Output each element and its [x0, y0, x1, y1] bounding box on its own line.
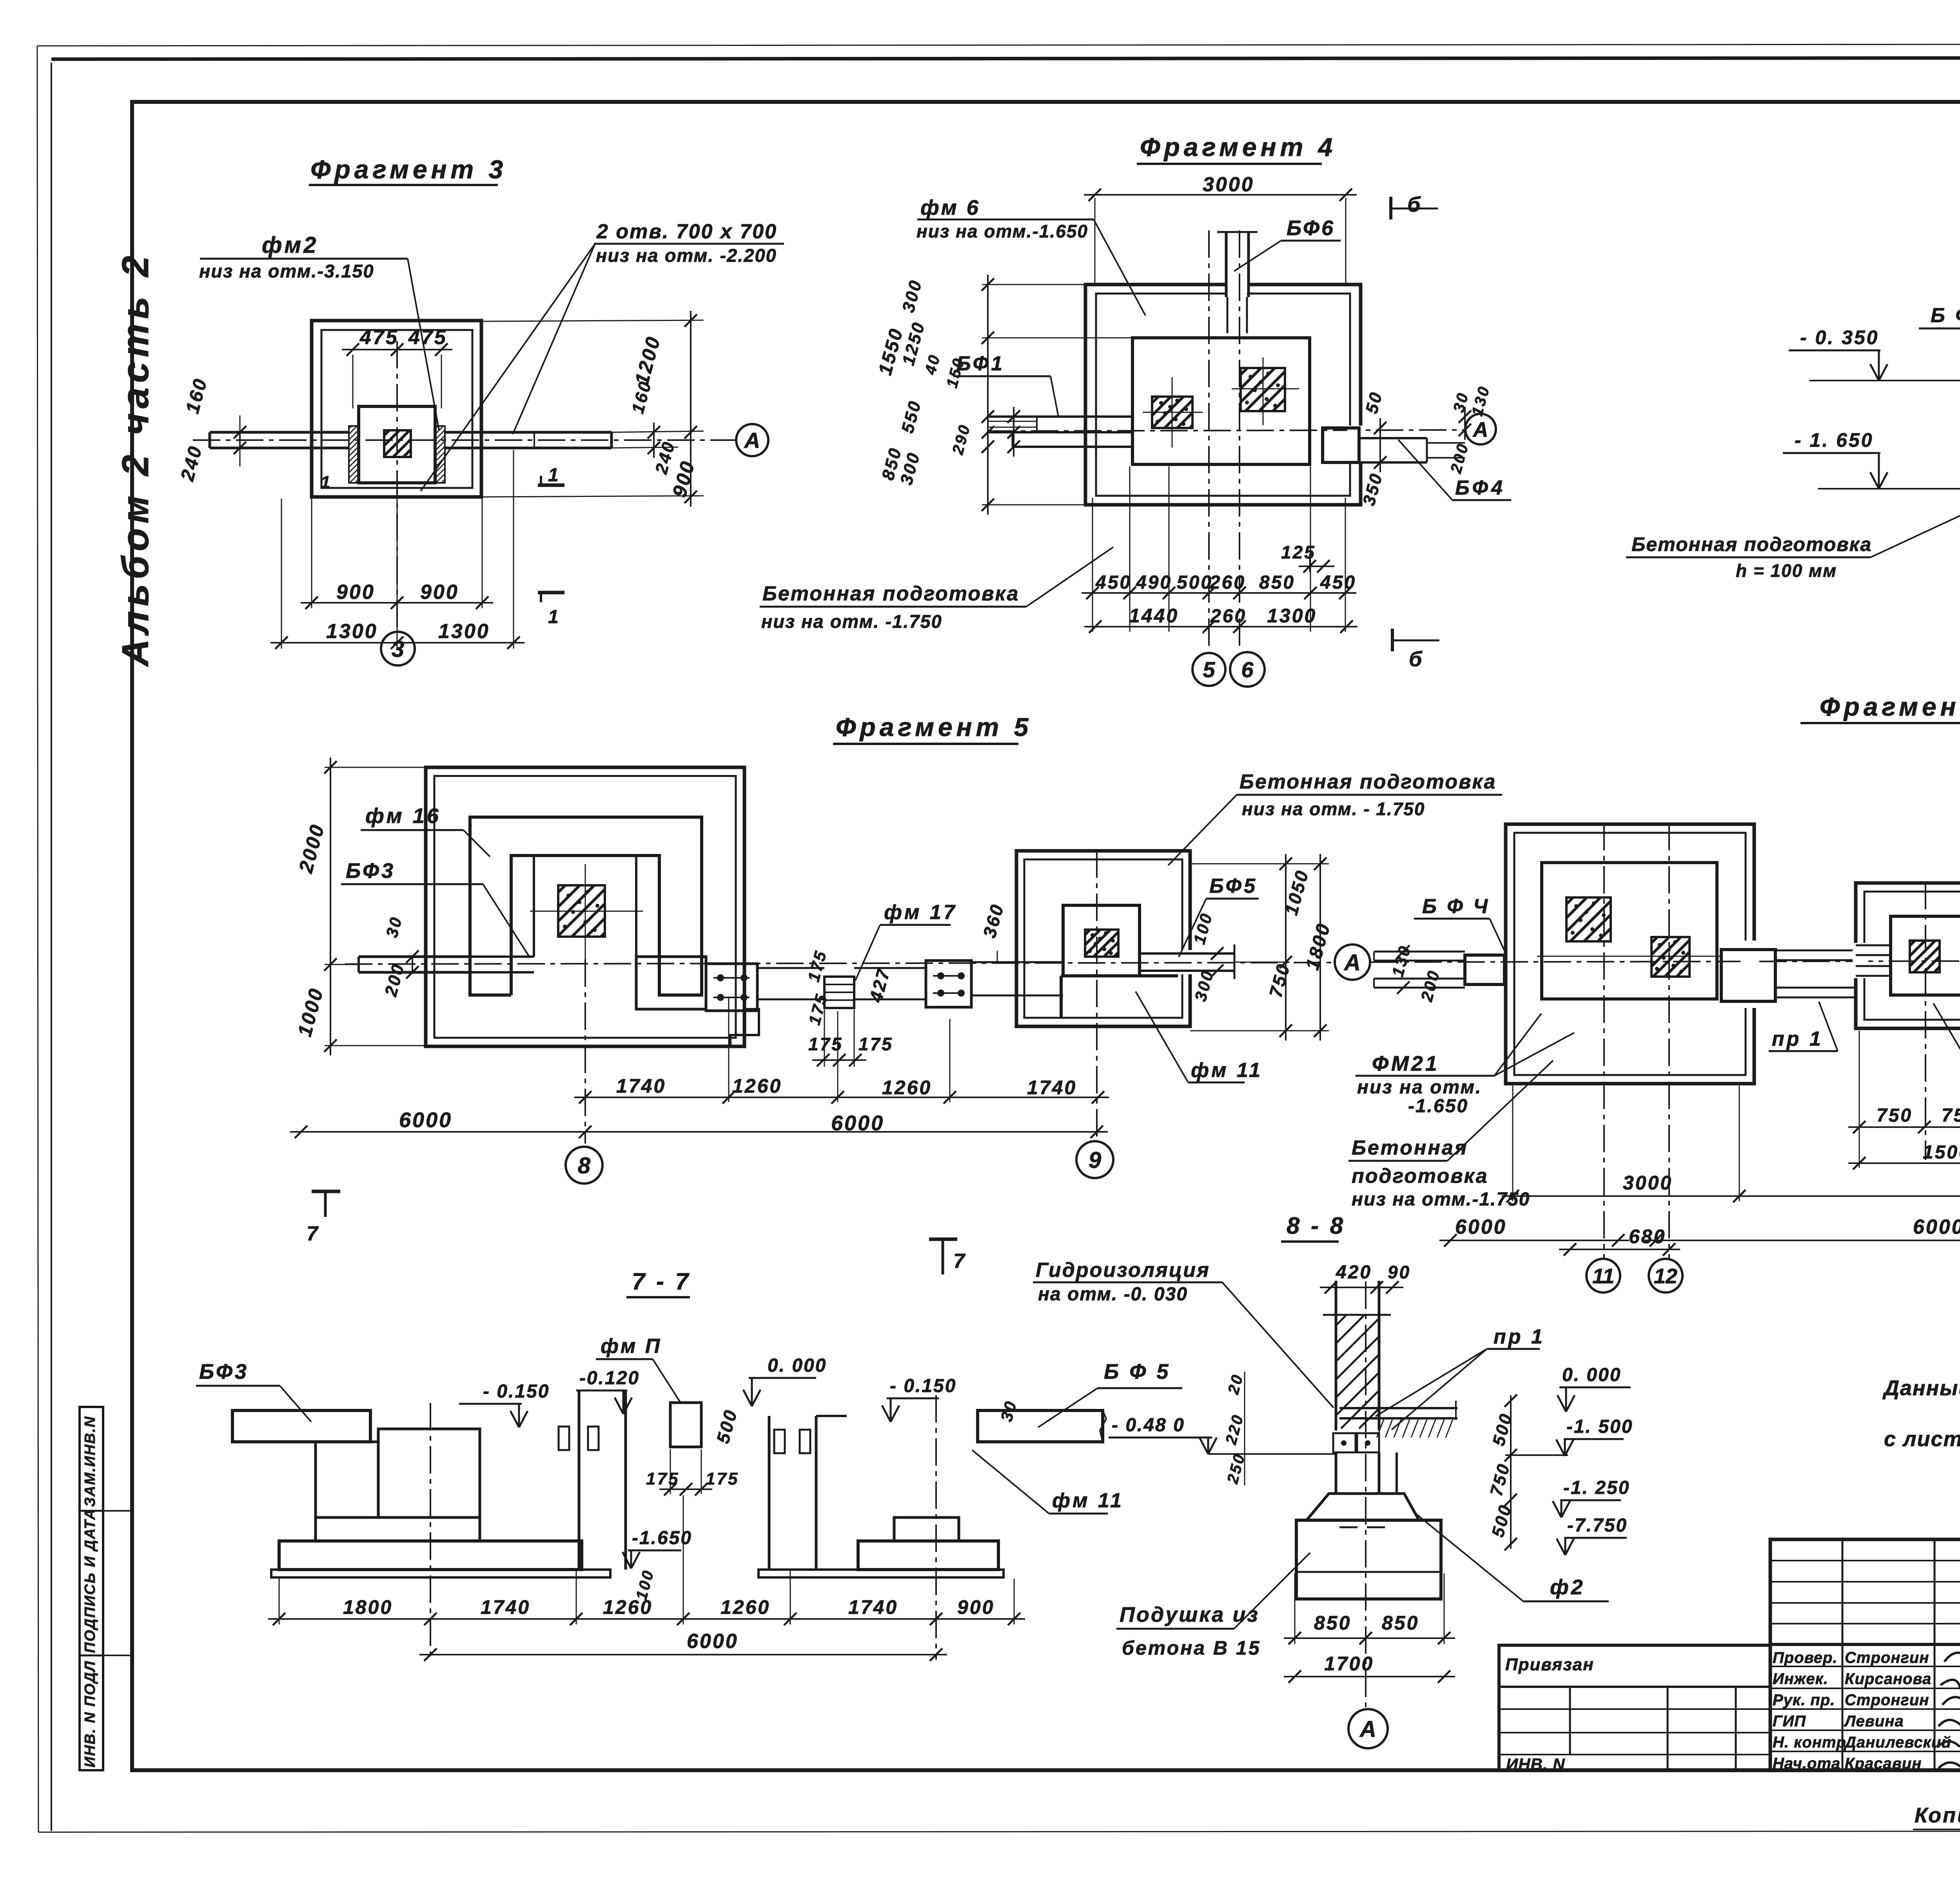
section 8-8 elevation -0.480: [1109, 1415, 1335, 1454]
svg-text:Стронгин: Стронгин: [1845, 1649, 1929, 1666]
svg-text:с листом КЖ4.: с листом КЖ4.: [1884, 1427, 1960, 1451]
svg-text:1500: 1500: [1923, 1142, 1960, 1163]
svg-text:8: 8: [578, 1153, 591, 1178]
svg-text:2 отв. 700 х 700: 2 отв. 700 х 700: [596, 220, 777, 243]
fragment 5 axis 8 centerline: [584, 959, 586, 1144]
svg-text:750: 750: [1877, 1105, 1913, 1126]
fragment 6 dim 6000 right: [1645, 1216, 1960, 1247]
svg-text:1740: 1740: [616, 1075, 666, 1097]
svg-text:Бетонная: Бетонная: [1352, 1137, 1468, 1159]
svg-text:БФ5: БФ5: [1209, 875, 1258, 897]
svg-text:-1. 500: -1. 500: [1566, 1416, 1633, 1437]
svg-text:6000: 6000: [1455, 1216, 1507, 1238]
svg-text:175: 175: [706, 1469, 739, 1488]
svg-text:1: 1: [548, 465, 560, 486]
svg-text:6000: 6000: [399, 1108, 452, 1132]
svg-text:6000: 6000: [1913, 1216, 1960, 1238]
svg-text:900: 900: [336, 581, 375, 604]
section 7-7 footing FM16: [279, 1541, 582, 1570]
section 7-7 elevation -0.150 left: [459, 1381, 550, 1427]
svg-text:БФ1: БФ1: [956, 352, 1005, 375]
fragment 6 dim 6000 left: [1439, 1216, 1629, 1247]
section 7-7 BF3 slab: [232, 1410, 370, 1442]
svg-text:1740: 1740: [848, 1596, 898, 1618]
svg-text:А: А: [1472, 418, 1488, 441]
section 8-8 vertical dim chain: [1486, 1394, 1517, 1550]
svg-text:h = 100 мм: h = 100 мм: [1736, 560, 1837, 581]
fragment 4 label FM6: [916, 196, 1145, 315]
fragment 6 label F2 block: [1933, 1003, 1960, 1100]
svg-text:А: А: [1359, 1717, 1376, 1742]
svg-text:750: 750: [1942, 1105, 1960, 1126]
axis circle 6: [1230, 652, 1265, 687]
fragment 3 title: [309, 155, 507, 185]
fragment 4 hatched square 2: [1241, 368, 1285, 411]
section 7-7 dim 6000: [419, 1630, 947, 1661]
svg-text:ИНВ. N ПОДЛ: ИНВ. N ПОДЛ: [82, 1661, 98, 1767]
fragment 5 main horizontal centerline: [345, 963, 1332, 964]
svg-text:3: 3: [392, 636, 404, 662]
axis circle 5: [1192, 653, 1225, 686]
section 8-8 dim 850 850: [1284, 1574, 1455, 1644]
left margin strip box: [80, 1407, 132, 1770]
inner left vertical line: [51, 63, 52, 1831]
svg-text:3000: 3000: [1623, 1172, 1673, 1194]
fragment 6 dim 1500: [1848, 1142, 1960, 1169]
svg-text:450: 450: [1320, 572, 1356, 593]
section 8-8 title: [1281, 1213, 1345, 1242]
fragment 3 bottom dims 900+900: [301, 484, 493, 649]
fragment 5 axis 9 centerline: [1096, 850, 1098, 1138]
svg-text:Нач.ота: Нач.ота: [1773, 1755, 1840, 1772]
section 6-6 elevation -0.350: [1789, 326, 1960, 381]
fragment 4 label BF6 with leader: [1234, 216, 1341, 271]
axis circle 9: [1076, 1141, 1113, 1178]
svg-text:1: 1: [321, 473, 332, 492]
svg-text:420: 420: [1336, 1262, 1372, 1283]
fragment 5 laminated stub FM17: [824, 977, 854, 1008]
section 7-7 FM17 pedestal block: [670, 1403, 701, 1447]
fragment 3 footing FM2 square: [359, 406, 435, 483]
svg-text:фм 17: фм 17: [884, 901, 957, 924]
fragment 5 rotated dim 360: [979, 901, 1007, 963]
svg-text:низ на отм. - 1.750: низ на отм. - 1.750: [1242, 799, 1425, 819]
fragment 6 FM21 centerline horizontal: [1537, 956, 1721, 957]
axis circle A fragment 6 left: [1335, 944, 1370, 980]
fragment 3 beam right arm: [445, 432, 612, 448]
svg-text:Б Ф 5: Б Ф 5: [1104, 1360, 1171, 1383]
fragment 3 label FM2 with leader: [199, 232, 439, 430]
svg-text:850: 850: [1259, 572, 1295, 593]
fragment 5 connector plate 2 with bolts: [926, 961, 971, 1007]
svg-text:подготовка: подготовка: [1352, 1165, 1488, 1187]
title block upper grid: [1770, 1539, 1960, 1770]
svg-text:6000: 6000: [687, 1630, 739, 1653]
fragment 4 centerline axis 6: [1239, 230, 1240, 651]
section 8-8 label waterproofing: [1033, 1259, 1334, 1408]
svg-text:фм2: фм2: [262, 232, 318, 258]
svg-text:Б Ф Ч: Б Ф Ч: [1931, 304, 1960, 327]
svg-text:Стронгин: Стронгин: [1845, 1691, 1929, 1709]
fragment 6 beam PR1 segment 1: [1775, 950, 1856, 997]
section 8-8 label cushion concrete: [1116, 1553, 1310, 1659]
svg-text:1440: 1440: [1129, 605, 1179, 627]
fragment 5 beam BF3: [359, 957, 534, 972]
fragment 4 title: [1137, 132, 1336, 164]
svg-text:9: 9: [1089, 1148, 1101, 1173]
section mark 7 right: [929, 1239, 966, 1274]
section 7-7 title: [626, 1268, 691, 1297]
section mark 7 left: [307, 1191, 340, 1245]
axis circle 3: [381, 632, 415, 665]
fragment 5 beam rotated dims 30 200: [381, 914, 419, 999]
fragment 6 plan FM21 outer pad: [1506, 824, 1754, 1084]
fragment 6 label FM21 block: [1356, 1013, 1574, 1117]
fragment 6 plan FM21 footing: [1542, 863, 1717, 999]
svg-text:-1. 250: -1. 250: [1563, 1477, 1630, 1498]
fragment 5 square centerlines: [530, 864, 643, 959]
svg-text:пр 1: пр 1: [1494, 1325, 1545, 1348]
fragment 5 label BF5 with leader: [1179, 875, 1259, 957]
fragment 5 dim 6000 row: [290, 1108, 1108, 1138]
fragment 4 square centerlines: [1143, 357, 1299, 448]
fragment 5 right dim stack: [1190, 854, 1334, 1041]
fragment 6 label BF4 with leader: [1414, 895, 1505, 952]
svg-text:фм 11: фм 11: [1052, 1489, 1124, 1512]
svg-text:1260: 1260: [720, 1596, 770, 1618]
fragment 3 left rotated dims 160 240: [177, 375, 332, 492]
svg-text:-0.120: -0.120: [579, 1368, 640, 1389]
fragment 5 footing FM11: [1061, 905, 1178, 1018]
fragment 3 column hatched square: [384, 430, 411, 457]
svg-text:0. 000: 0. 000: [1562, 1365, 1621, 1385]
fragment 4 bottom dim row 1440 260 1300: [1084, 605, 1357, 633]
svg-text:260: 260: [1210, 606, 1247, 627]
fragment 4 label concrete pad with leader: [760, 547, 1113, 632]
svg-text:Данилевский: Данилевский: [1844, 1734, 1951, 1751]
svg-text:1260: 1260: [882, 1077, 932, 1099]
section 8-8 elevation 0.000: [1557, 1365, 1631, 1412]
section 8-8 floor slab: [1339, 1401, 1457, 1420]
fragment 6 beam rotated dims 130 200: [1388, 943, 1443, 1004]
svg-text:Данный лист рассматривать: Данный лист рассматривать вместе: [1882, 1376, 1960, 1400]
fragment 5 bottom dim row 1740 1260 1260 1740: [574, 997, 1109, 1104]
fragment 5 pad step bottom right: [730, 1009, 759, 1046]
svg-text:11: 11: [1592, 1264, 1614, 1288]
section 6-6 elevation -1.650: [1783, 429, 1960, 489]
fragment 4 outer pad double square: [1085, 285, 1361, 505]
svg-text:850: 850: [1314, 1612, 1351, 1634]
svg-text:- 0.48 0: - 0.48 0: [1112, 1415, 1185, 1436]
svg-text:5: 5: [1203, 657, 1215, 682]
svg-text:пр 1: пр 1: [1772, 1028, 1823, 1050]
svg-text:ЗАМ.ИНВ.N: ЗАМ.ИНВ.N: [82, 1416, 98, 1507]
svg-text:Бетонная подготовка: Бетонная подготовка: [1632, 533, 1872, 555]
fragment 4 riser pipe: [1217, 232, 1258, 333]
section 7-7 right pier of left part: [559, 1390, 626, 1570]
svg-text:900: 900: [957, 1596, 995, 1618]
svg-text:3000: 3000: [1203, 173, 1254, 196]
fragment 6 axis 12 centerline: [1668, 823, 1670, 1258]
fragment 4 left dimension stack: [875, 275, 1132, 515]
svg-text:175: 175: [858, 1034, 893, 1054]
svg-text:7: 7: [953, 1250, 966, 1273]
svg-text:Бетонная подготовка: Бетонная подготовка: [1240, 770, 1496, 793]
section 8-8 left rotated dims: [1222, 1372, 1249, 1486]
section 8-8 label F2 with leader: [1413, 1511, 1609, 1601]
svg-text:Рук. пр.: Рук. пр.: [1773, 1691, 1835, 1709]
fragment 6 title: [1800, 692, 1960, 723]
fragment 6 middle plan footing: [1891, 916, 1960, 995]
section 7-7 elevation -0.150 right: [882, 1376, 956, 1422]
fragment 3 wall stub hatched right: [435, 426, 445, 483]
axis circle A fragment 4: [1465, 414, 1496, 444]
fragment 4 label BF4 with leader: [1398, 440, 1511, 500]
section 7-7 right part piers: [769, 1416, 847, 1570]
fragment 3 section mark 1 lower: [538, 593, 564, 627]
fragment 5 hatched square FM11: [1085, 930, 1118, 957]
section 6-6 label concrete pad h100: [1626, 505, 1960, 581]
svg-text:90: 90: [1388, 1262, 1411, 1282]
axis circle 11: [1586, 1259, 1620, 1293]
svg-text:6000: 6000: [831, 1111, 884, 1135]
fragment 4 footing FM6 rect: [1132, 338, 1310, 464]
svg-text:ПОДПИСЬ И ДАТА: ПОДПИСЬ И ДАТА: [82, 1508, 98, 1653]
svg-text:1: 1: [548, 607, 560, 627]
fragment 6 beam through middle plan: [1853, 943, 1960, 978]
attachment table left: [1499, 1645, 1770, 1773]
svg-text:1740: 1740: [1027, 1077, 1077, 1099]
fragment 3 horizontal centerline A: [193, 439, 736, 441]
svg-text:Копировал Подлевская: Копировал Подлевская: [1915, 1804, 1960, 1827]
svg-text:-1.650: -1.650: [1408, 1096, 1468, 1117]
fragment 6 middle plan centerline: [1925, 882, 1926, 1160]
svg-text:бетона В 15: бетона В 15: [1122, 1637, 1261, 1659]
fragment 4 beam left BF1: [988, 417, 1132, 447]
section 7-7 elevation -1.650: [622, 1528, 692, 1568]
fragment 5 label FM11 with leader: [1136, 992, 1263, 1082]
svg-text:ф2: ф2: [1550, 1575, 1585, 1599]
svg-text:Привязан: Привязан: [1505, 1655, 1594, 1674]
svg-text:Инжек.: Инжек.: [1773, 1670, 1828, 1688]
svg-text:ИНВ. N: ИНВ. N: [1506, 1755, 1565, 1773]
fragment 6 left beam BF4: [1374, 945, 1504, 994]
fragment 6 right notch beam block: [1721, 941, 1775, 1008]
svg-text:Фрагмент 5: Фрагмент 5: [836, 712, 1032, 741]
fragment 3 top dimension 475+475: [342, 326, 452, 408]
svg-text:8 - 8: 8 - 8: [1287, 1213, 1345, 1239]
svg-text:7 - 7: 7 - 7: [632, 1268, 691, 1294]
svg-text:б: б: [1407, 193, 1422, 216]
svg-text:- 0. 350: - 0. 350: [1800, 326, 1879, 348]
fragment 3 beam left arm: [210, 432, 349, 448]
fragment 6 middle plan hatched square: [1910, 941, 1940, 972]
fragment 6 FM21 hatched square small: [1651, 937, 1690, 977]
fragment 3 right dim stack: [481, 311, 704, 507]
fragment 6 middle plan F2 outer pad: [1856, 883, 1960, 1028]
svg-text:475: 475: [408, 326, 447, 349]
section 7-7 bottom dim row: [268, 1495, 1025, 1625]
section 8-8 column shaft lower: [1336, 1452, 1397, 1494]
svg-text:БФ6: БФ6: [1287, 216, 1335, 240]
svg-text:ФМ21: ФМ21: [1372, 1052, 1439, 1075]
svg-text:низ на отм.-1.650: низ на отм.-1.650: [916, 221, 1088, 241]
fragment 4 bottom extension lines: [1093, 466, 1345, 632]
svg-text:- 0.150: - 0.150: [890, 1376, 956, 1396]
fragment 3 label 2 holes with leaders: [421, 220, 784, 491]
fragment 6 label PR1 lower with leader: [1769, 1002, 1838, 1051]
svg-text:1700: 1700: [1324, 1653, 1374, 1675]
svg-text:фм 16: фм 16: [365, 804, 441, 828]
section 7-7 elevation 0.000: [743, 1355, 827, 1406]
svg-text:низ на отм.-1.750: низ на отм.-1.750: [1352, 1189, 1530, 1210]
fragment 6 dim 680: [1559, 1225, 1680, 1256]
fragment 5 hatched column square: [558, 885, 605, 937]
left strip rotated captions: [82, 1416, 98, 1767]
fragment 3 wall stub hatched left: [349, 426, 359, 483]
svg-text:900: 900: [420, 581, 459, 604]
fragment 4 section mark B bottom: [1392, 629, 1439, 671]
fragment 6 axis 11 centerline: [1603, 823, 1605, 1258]
section 7-7 label FM11 with leader: [972, 1450, 1124, 1514]
svg-text:1800: 1800: [343, 1596, 393, 1618]
fragment 4 main horizontal centerline: [988, 430, 1466, 431]
fragment 5 right plan outer pad: [1016, 851, 1190, 1026]
svg-text:850: 850: [1382, 1612, 1419, 1634]
svg-text:- 0.150: - 0.150: [483, 1381, 550, 1402]
svg-text:Фрагмент 6: Фрагмент 6: [1820, 692, 1960, 721]
svg-text:6: 6: [1241, 657, 1254, 682]
svg-text:низ на отм. -2.200: низ на отм. -2.200: [596, 245, 777, 266]
axis circle A section 8-8: [1348, 1709, 1388, 1748]
section 8-8 elevation -1.250: [1553, 1477, 1630, 1517]
fragment 5 left plan outer pad: [426, 767, 744, 1046]
svg-text:Кирсанова: Кирсанова: [1845, 1670, 1931, 1688]
section 8-8 pedestal: [1296, 1520, 1441, 1599]
svg-text:БФ3: БФ3: [199, 1360, 249, 1383]
svg-text:Фрагмент 4: Фрагмент 4: [1140, 132, 1336, 161]
svg-text:Б Ф Ч: Б Ф Ч: [1422, 895, 1490, 918]
fragment 6 dim 750 750: [1848, 1031, 1960, 1168]
fragment 5 footing inner leg lines: [534, 856, 636, 957]
section 7-7 dims 175 175: [646, 1449, 739, 1496]
svg-text:ГИП: ГИП: [1773, 1713, 1806, 1730]
svg-text:низ на отм. -1.750: низ на отм. -1.750: [761, 611, 942, 632]
svg-text:1300: 1300: [326, 620, 378, 643]
svg-text:1260: 1260: [732, 1075, 782, 1097]
svg-text:1260: 1260: [603, 1596, 653, 1618]
section 7-7 elevation -0.120: [576, 1368, 640, 1414]
fragment 4 centerline axis 5: [1208, 230, 1210, 651]
fragment 6 label concrete pad block: [1348, 1060, 1553, 1210]
svg-text:500: 500: [1177, 572, 1213, 593]
section 7-7 label BF5 with leader: [1038, 1360, 1182, 1427]
svg-text:Красавин: Красавин: [1845, 1755, 1922, 1772]
fragment 5 left vertical dims 2000 1000: [294, 758, 426, 1055]
svg-text:1300: 1300: [438, 620, 490, 643]
section 6-6 label BF4 with leader: [1919, 304, 1960, 352]
fragment 5 label FM16 with leader: [361, 804, 490, 857]
fragment 3 bottom dims 1300+1300: [270, 450, 524, 649]
svg-text:А: А: [744, 428, 760, 453]
section 8-8 footing trapezoid: [1307, 1494, 1419, 1520]
section 8-8 column hatched: [1323, 1281, 1391, 1430]
svg-text:Провер.: Провер.: [1773, 1649, 1838, 1666]
fragment 5 lower right block: [636, 957, 706, 1009]
fragment 3 concrete pad outer square: [312, 321, 481, 497]
svg-text:БФ3: БФ3: [346, 859, 396, 883]
svg-text:низ на отм.-3.150: низ на отм.-3.150: [199, 261, 374, 281]
fragment 5 footing FM16 P-shape: [470, 817, 702, 995]
svg-text:фм 6: фм 6: [920, 196, 980, 219]
svg-text:А: А: [1343, 950, 1361, 975]
section 8-8 PR1 blocks: [1333, 1433, 1379, 1452]
svg-text:на отм. -0. 030: на отм. -0. 030: [1038, 1284, 1188, 1305]
fragment 4 bottom dim row 450 490 500 260 850 450: [1082, 572, 1356, 599]
fragment 4 section mark B top: [1391, 193, 1438, 219]
svg-text:низ на отм.: низ на отм.: [1357, 1077, 1482, 1098]
section 8-8 dim 1700: [1284, 1653, 1455, 1683]
handwritten copy note: [1913, 1804, 1960, 1831]
svg-text:475: 475: [359, 326, 399, 349]
fragment 4 top dim 3000: [1084, 173, 1357, 286]
fragment 5 title: [833, 712, 1032, 744]
svg-text:БФ4: БФ4: [1455, 477, 1506, 499]
section 8-8 soil hatch: [1377, 1419, 1453, 1438]
svg-text:Гидроизоляция: Гидроизоляция: [1036, 1259, 1210, 1282]
section 7-7 right footing blocks: [759, 1517, 1004, 1577]
fragment 5 beam BF5 exit: [1140, 944, 1234, 979]
section 8-8 label PR1 with leaders: [1376, 1325, 1545, 1430]
fragment 5 rotated dims 175 175 vertical: [804, 948, 831, 1027]
svg-text:0. 000: 0. 000: [768, 1355, 827, 1376]
axis circle 8: [566, 1147, 603, 1184]
svg-text:1300: 1300: [1267, 605, 1317, 627]
section 7-7 base plate left: [271, 1570, 610, 1577]
title block main outline: [1770, 1539, 1960, 1770]
axis circle A fragment 3: [736, 424, 768, 456]
title block signature texts: [1773, 1649, 1951, 1772]
fragment 5 middle beam segments: [757, 968, 926, 999]
fragment 5 label FM17 with leader: [855, 901, 957, 981]
svg-text:б: б: [1409, 647, 1423, 671]
svg-text:- 1. 650: - 1. 650: [1795, 429, 1874, 451]
fragment 5 connector plate 1 with bolts: [706, 964, 757, 1011]
section 7-7 left block stack: [316, 1429, 480, 1541]
svg-text:Подушка из: Подушка из: [1120, 1603, 1259, 1626]
svg-text:450: 450: [1095, 572, 1132, 593]
fragment 5 dim 175 175 below stub: [808, 1010, 893, 1067]
section 7-7 BF5 slab: [978, 1410, 1106, 1442]
fragment 4 hatched square 1: [1152, 397, 1192, 428]
fragment 3 vertical centerline axis 3: [396, 341, 398, 631]
svg-text:7: 7: [307, 1222, 319, 1245]
section 8-8 elevation -7.750: [1557, 1515, 1628, 1555]
fragment 6 dim 3000 3000 row: [1502, 1086, 1960, 1204]
svg-text:Альбом 2 часть 2: Альбом 2 часть 2: [114, 251, 156, 667]
svg-text:12: 12: [1654, 1264, 1677, 1288]
section 8-8 dim 420 90: [1320, 1262, 1411, 1294]
section 7-7 centerlines: [430, 1395, 936, 1660]
fragment 4 right dimension stack: [1359, 384, 1493, 508]
title block signatures squiggles: [1937, 1653, 1960, 1769]
svg-text:Н. контр: Н. контр: [1773, 1734, 1846, 1751]
fragment 5 pad label with leader: [1168, 770, 1502, 865]
fragment 6 FM21 hatched square big: [1566, 897, 1611, 941]
svg-text:260: 260: [1209, 572, 1246, 593]
section 7-7 label FM17 with leader: [596, 1335, 681, 1404]
svg-text:1740: 1740: [481, 1596, 530, 1618]
